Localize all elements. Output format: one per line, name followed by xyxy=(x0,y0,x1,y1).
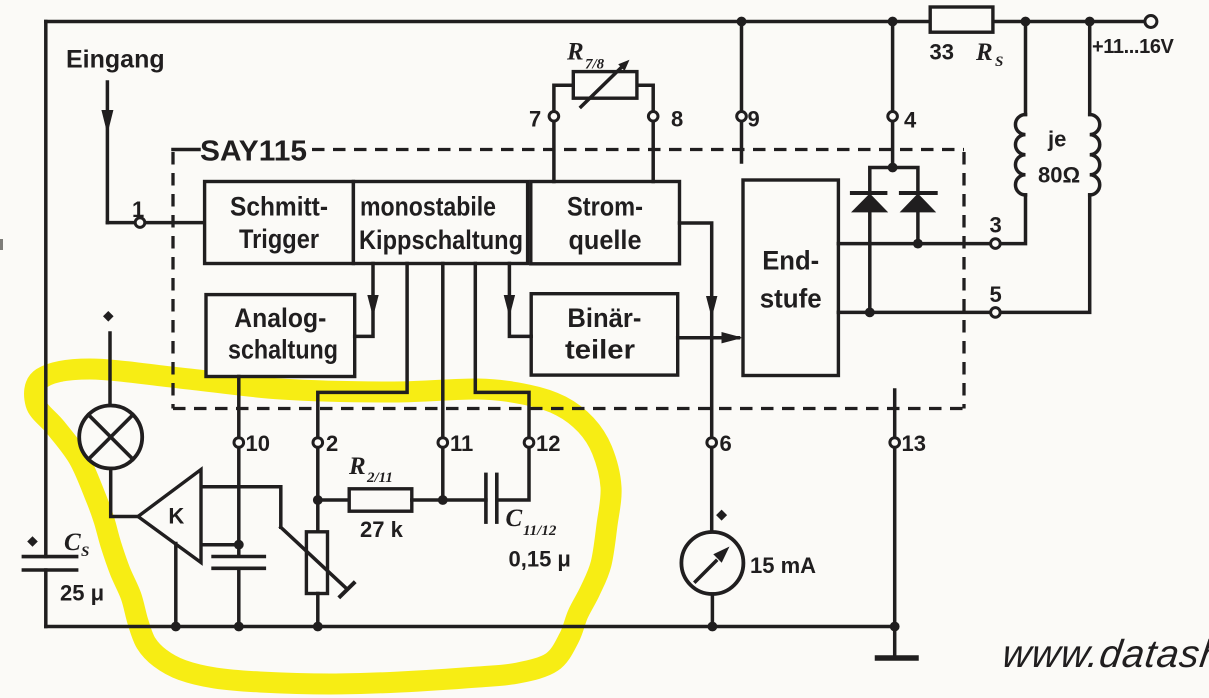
svg-text:6: 6 xyxy=(720,431,732,456)
yellow highlighter loop xyxy=(35,369,612,684)
node: meter ground xyxy=(708,622,718,632)
svg-text:S: S xyxy=(81,544,89,560)
svg-text:R: R xyxy=(348,453,366,480)
resistor Rs body xyxy=(930,7,993,32)
svg-text:27 k: 27 k xyxy=(360,517,404,542)
block: Endstufe xyxy=(743,180,838,376)
wire: pin7 lead up to R7/8 xyxy=(554,85,573,111)
wire: left coil feed xyxy=(1024,22,1028,115)
svg-text:2: 2 xyxy=(326,431,338,456)
wire: right coil feed xyxy=(1088,22,1092,115)
svg-text:12: 12 xyxy=(536,431,560,456)
wire: Kippschaltung to Binaerteiler xyxy=(509,264,531,337)
polarity + at meter xyxy=(716,510,727,521)
ground symbol xyxy=(878,655,917,661)
svg-text:Schmitt-: Schmitt- xyxy=(230,192,328,222)
svg-text:R: R xyxy=(975,39,993,66)
node: pin11 junction xyxy=(438,495,448,505)
block: Stromquelle xyxy=(531,182,680,264)
arrow on pin6 wire xyxy=(706,296,717,318)
svg-text:stufe: stufe xyxy=(760,284,822,314)
svg-text:+11...16V: +11...16V xyxy=(1092,36,1175,58)
wire: pin12 column xyxy=(475,264,529,501)
svg-text:9: 9 xyxy=(748,107,760,132)
wire: lamp feed xyxy=(108,333,112,406)
block: Binaerteiler xyxy=(531,294,678,375)
node: pin2 junction xyxy=(313,495,323,505)
wire: pin9 column xyxy=(740,22,744,163)
svg-text:je: je xyxy=(1047,127,1066,152)
pin 10 terminal xyxy=(234,438,244,448)
lamp xyxy=(79,406,142,469)
node: right coil on supply rail xyxy=(1085,17,1095,27)
node: cap column junction xyxy=(234,540,244,550)
diode D2 xyxy=(900,193,937,212)
pin 4 terminal xyxy=(888,112,898,122)
svg-text:15 mA: 15 mA xyxy=(750,553,816,578)
pin 8 terminal xyxy=(648,112,658,122)
capacitor C11/12 xyxy=(486,474,497,522)
block: Schmitt-Trigger xyxy=(205,182,354,264)
arrow on Binaer wire xyxy=(504,295,515,317)
potentiometer body xyxy=(306,532,327,594)
svg-text:33: 33 xyxy=(930,40,954,65)
svg-text:5: 5 xyxy=(990,282,1002,307)
svg-text:80Ω: 80Ω xyxy=(1038,163,1080,188)
resistor R7/8 body xyxy=(573,72,637,99)
svg-text:25 μ: 25 μ xyxy=(60,581,104,606)
capacitor Cs xyxy=(23,557,76,570)
arrow on Analog wire xyxy=(367,295,378,317)
wire: pot bottom lead xyxy=(316,594,320,627)
input arrow xyxy=(101,82,113,223)
wire: diode pair top link xyxy=(870,168,918,193)
svg-text:C: C xyxy=(64,529,81,556)
IC SAY115 dashed boundary xyxy=(173,150,964,409)
resistor R2/11 body xyxy=(349,489,412,511)
wire: R2/11 node row xyxy=(318,498,349,502)
svg-text:4: 4 xyxy=(904,108,917,133)
svg-text:C: C xyxy=(506,505,523,532)
wire: pin8 into Stromquelle xyxy=(651,122,655,182)
wire: pin6 to meter xyxy=(710,448,714,532)
node: amp ground xyxy=(171,622,181,632)
node: left coil on supply rail xyxy=(1021,17,1031,27)
wire: pin13 column xyxy=(893,390,897,656)
wire: R2/11 to C11/12 xyxy=(412,498,486,502)
node: D1 on pin5 wire xyxy=(865,308,875,318)
wire: pin7 into Stromquelle xyxy=(552,122,556,182)
wire: pin4 column xyxy=(891,22,895,168)
svg-text:7/8: 7/8 xyxy=(585,57,605,73)
block: monostabile Kippschaltung xyxy=(353,182,527,264)
wire: cap to ground rail xyxy=(237,568,241,626)
meter 15mA xyxy=(681,532,743,594)
pin 1 terminal xyxy=(135,218,145,228)
svg-text:www.datash: www.datash xyxy=(1000,633,1209,676)
node: pin13 ground junction xyxy=(890,622,900,632)
pin 7 terminal xyxy=(549,112,559,122)
svg-text:11/12: 11/12 xyxy=(523,523,557,539)
svg-text:End-: End- xyxy=(762,246,819,276)
svg-text:teiler: teiler xyxy=(565,335,635,365)
wire: pin2 column xyxy=(318,264,407,532)
capacitor at amp xyxy=(213,557,264,569)
pin 11 terminal xyxy=(438,438,448,448)
block: Analogschaltung xyxy=(206,295,355,377)
wire: meter to ground rail xyxy=(711,594,715,627)
wire: top supply rail xyxy=(46,20,1151,24)
polarity + at Cs xyxy=(27,536,38,547)
wire: pin5 line from Endstufe xyxy=(838,195,1089,313)
svg-text:K: K xyxy=(168,504,184,529)
svg-text:2/11: 2/11 xyxy=(366,470,393,486)
svg-text:Kippschaltung: Kippschaltung xyxy=(359,225,523,255)
pin 9 terminal xyxy=(737,112,747,122)
svg-text:8: 8 xyxy=(671,107,683,132)
svg-text:10: 10 xyxy=(246,431,270,456)
polarity + above lamp xyxy=(103,311,114,322)
svg-text:Eingang: Eingang xyxy=(66,46,165,74)
svg-text:Strom-: Strom- xyxy=(567,192,643,222)
diode D1 xyxy=(851,193,888,212)
wire: D2 cathode lead down xyxy=(916,212,920,244)
label Cs xyxy=(64,529,89,560)
node: pot on ground rail xyxy=(313,622,323,632)
wire: amp K output to wiper xyxy=(201,487,281,528)
label R2/11 xyxy=(348,453,393,486)
wire: pin1 to Schmitt-Trigger xyxy=(107,221,204,225)
svg-text:R: R xyxy=(566,39,584,66)
wire: left border (below Cs) xyxy=(44,570,48,627)
svg-text:Analog-: Analog- xyxy=(234,303,326,333)
inductor L2 xyxy=(1090,115,1100,195)
pin 3 terminal xyxy=(991,239,1001,249)
wire: Kippschaltung to Analogschaltung xyxy=(355,264,373,337)
pin 6 terminal xyxy=(707,438,717,448)
wire: pin10 column xyxy=(237,377,241,557)
node: D2 on pin3 wire xyxy=(913,239,923,249)
svg-text:0,15 μ: 0,15 μ xyxy=(509,547,571,572)
wire: left border (upper part, above Cs) xyxy=(44,22,48,557)
svg-text:SAY115: SAY115 xyxy=(200,136,307,168)
resistor R7/8 adjust arrow xyxy=(581,60,630,107)
label R7/8 xyxy=(566,39,605,73)
wire: pin8 lead up to R7/8 xyxy=(637,85,653,111)
watermark xyxy=(1000,633,1209,676)
svg-text:3: 3 xyxy=(990,213,1002,238)
pin 12 terminal xyxy=(524,438,534,448)
svg-text:quelle: quelle xyxy=(569,225,642,255)
node: pin4 on supply rail xyxy=(888,17,898,27)
label Rs xyxy=(975,39,1003,70)
supply terminal xyxy=(1145,16,1157,28)
wire: amp ground stub xyxy=(174,544,178,627)
wire: lamp to amp K xyxy=(111,469,138,517)
svg-text:13: 13 xyxy=(902,431,926,456)
wire: bottom ground rail xyxy=(46,625,895,629)
wire: pin3 line from Endstufe xyxy=(838,195,1025,244)
pin 13 terminal xyxy=(890,438,900,448)
potentiometer wiper arm xyxy=(281,527,354,596)
svg-text:schaltung: schaltung xyxy=(228,335,338,365)
arrow into Endstufe xyxy=(722,332,744,343)
svg-text:S: S xyxy=(995,54,1003,70)
label C11/12 xyxy=(506,505,557,539)
svg-text:7: 7 xyxy=(529,107,541,132)
node: cap ground xyxy=(234,622,244,632)
wire: pin11 column xyxy=(441,264,445,501)
svg-text:Binär-: Binär- xyxy=(567,303,641,333)
pin 5 terminal xyxy=(991,308,1001,318)
svg-text:monostabile: monostabile xyxy=(360,192,496,222)
wire: Stromquelle output to pin6 xyxy=(680,223,712,438)
svg-text:11: 11 xyxy=(450,431,473,456)
node: pin9 on supply rail xyxy=(737,17,747,27)
scan edge speck xyxy=(0,239,3,250)
svg-text:Trigger: Trigger xyxy=(239,224,319,254)
inductor L1 xyxy=(1015,115,1025,195)
wire: D1 cathode lead down xyxy=(868,212,872,312)
node: diode junction xyxy=(888,163,898,173)
wire: Binaerteiler to Endstufe xyxy=(678,336,739,340)
wire: amp K lower lead xyxy=(201,543,239,547)
pin 2 terminal xyxy=(313,438,323,448)
amplifier K xyxy=(138,470,201,563)
